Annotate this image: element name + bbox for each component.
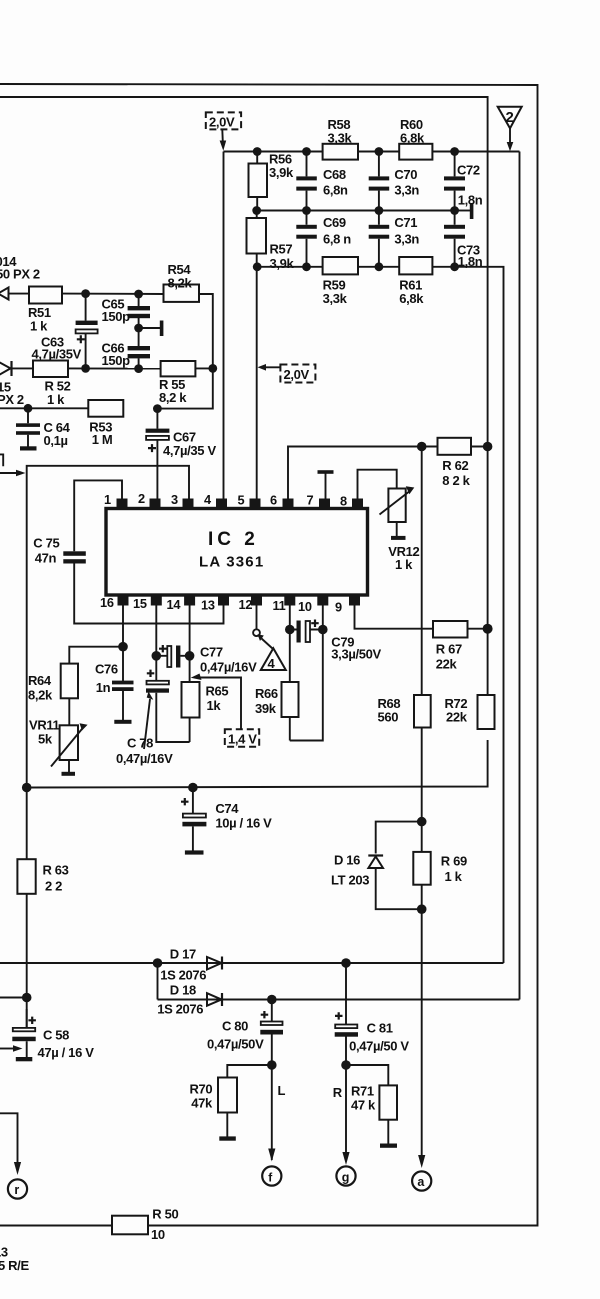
measuring point triangle 4 <box>258 634 286 671</box>
terminal bar mid <box>160 321 164 337</box>
stub wire into left column <box>0 997 27 999</box>
svg-text:C74: C74 <box>215 801 239 816</box>
svg-text:3,9k: 3,9k <box>270 256 295 271</box>
node row3 C69 <box>302 262 311 271</box>
node R67 bus <box>483 624 493 634</box>
wire R62 right to bus <box>471 446 488 448</box>
svg-text:C 58: C 58 <box>43 1028 69 1043</box>
node row1 C72 <box>450 147 459 156</box>
variable resistor VR12 <box>380 486 420 572</box>
svg-text:0,47µ/50 V: 0,47µ/50 V <box>349 1039 409 1054</box>
svg-text:C76: C76 <box>95 662 118 677</box>
wire pin14 down to R65 <box>189 606 191 683</box>
capacitor C69 <box>296 211 351 267</box>
capacitor C67 electrolytic <box>146 409 217 499</box>
svg-text:R71: R71 <box>351 1084 374 1099</box>
svg-text:6,8k: 6,8k <box>399 291 424 306</box>
capacitor C73 <box>444 211 483 270</box>
svg-text:1 k: 1 k <box>47 392 65 407</box>
wire C75 to pin13 <box>74 564 223 624</box>
svg-text:11: 11 <box>273 598 286 613</box>
resistor R61 <box>399 257 432 306</box>
svg-text:LT 203: LT 203 <box>331 873 369 888</box>
svg-text:C 75: C 75 <box>33 536 59 551</box>
resistor R57 <box>247 211 295 272</box>
node row2 R57 <box>252 206 261 215</box>
wire pin3 to left vertical <box>27 466 189 788</box>
resistor R50 <box>112 1207 178 1243</box>
arrow into pin3 net <box>0 470 26 477</box>
wire R64 to VR11 <box>68 698 70 725</box>
svg-text:C 81: C 81 <box>367 1021 393 1036</box>
wire pin4 column from row1 <box>223 152 225 500</box>
svg-text:C71: C71 <box>394 215 417 230</box>
svg-text:1S 2076: 1S 2076 <box>157 1002 203 1017</box>
terminal bar row2 <box>470 203 474 219</box>
node C65-C66 junction <box>134 324 143 333</box>
svg-text:15: 15 <box>133 596 147 611</box>
pin 7 <box>307 493 331 510</box>
wire junction down to R53 row <box>157 368 212 408</box>
node pin14 C77 <box>185 651 195 661</box>
capacitor C75 <box>33 536 86 566</box>
svg-text:0,47µ/16V: 0,47µ/16V <box>200 660 257 675</box>
svg-text:9: 9 <box>335 600 342 615</box>
svg-text:8: 8 <box>340 494 347 509</box>
pin 13 <box>201 595 229 613</box>
wire pin10 down and to R66 bottom <box>290 606 323 741</box>
svg-text:2 2: 2 2 <box>45 879 62 894</box>
svg-text:150p: 150p <box>102 309 131 324</box>
svg-text:LA 3361: LA 3361 <box>199 554 264 571</box>
ground stub above pin7 <box>318 470 334 498</box>
svg-text:0,1µ: 0,1µ <box>44 433 68 448</box>
svg-text:R 69: R 69 <box>441 854 467 869</box>
svg-text:VR11: VR11 <box>29 718 60 733</box>
terminal g <box>336 1152 355 1186</box>
node row1 C68 <box>302 147 311 156</box>
svg-text:10: 10 <box>298 599 312 614</box>
node R62 right on bus <box>483 442 493 452</box>
svg-text:47 k: 47 k <box>351 1098 376 1113</box>
svg-text:3,9k: 3,9k <box>269 165 294 180</box>
svg-text:C 78: C 78 <box>127 736 153 751</box>
voltage label 1,4V with arrow to R65 top <box>191 674 260 747</box>
test point circle pin12 <box>253 629 260 636</box>
svg-text:C77: C77 <box>200 645 223 660</box>
wire net-488 top line and right vertical bus <box>0 97 488 695</box>
resistor R63 <box>17 788 68 1029</box>
wire D15 to R52 <box>12 367 34 369</box>
diode D17 <box>160 947 222 983</box>
svg-text:22k: 22k <box>436 657 458 672</box>
svg-text:1 k: 1 k <box>445 869 463 884</box>
svg-text:50 PX 2: 50 PX 2 <box>0 267 40 282</box>
svg-text:6: 6 <box>270 493 277 508</box>
diode D14 <box>0 288 9 300</box>
svg-text:8,2 k: 8,2 k <box>159 390 187 405</box>
wire pin8 to VR12 <box>358 470 397 499</box>
svg-text:1: 1 <box>104 492 111 507</box>
wire pin1 to C75 <box>74 480 122 551</box>
svg-text:10µ / 16 V: 10µ / 16 V <box>215 816 272 831</box>
wire R53 row left <box>0 407 88 409</box>
svg-text:10: 10 <box>151 1227 165 1242</box>
svg-text:PX 2: PX 2 <box>0 392 24 407</box>
wire drop D17 row to D18 row <box>157 963 159 1000</box>
wire R67 right to bus <box>468 628 488 630</box>
svg-text:8 2 k: 8 2 k <box>442 473 470 488</box>
svg-text:4: 4 <box>268 656 276 671</box>
node C80 R70 <box>267 1060 277 1070</box>
svg-text:22k: 22k <box>446 710 468 725</box>
wire outer border loop top/right/bottom <box>0 84 538 1226</box>
resistor R52 <box>33 361 71 408</box>
wire pin11 down through R66 <box>289 606 291 683</box>
pin 5 <box>238 493 261 510</box>
svg-text:2: 2 <box>506 109 514 126</box>
svg-text:13: 13 <box>201 598 215 613</box>
svg-text:R 63: R 63 <box>43 863 69 878</box>
wire bus from filter row3 down to D17 row <box>455 267 504 963</box>
pin 15 <box>133 595 162 612</box>
capacitor C78 electrolytic <box>116 670 190 766</box>
wire R55 right to junction <box>195 367 212 369</box>
svg-text:L: L <box>278 1083 286 1098</box>
svg-text:6,8n: 6,8n <box>323 183 348 198</box>
svg-text:1 k: 1 k <box>395 557 413 572</box>
svg-text:47µ / 16 V: 47µ / 16 V <box>38 1045 95 1060</box>
svg-text:1,4 V: 1,4 V <box>228 732 257 747</box>
wire R54 right to vertical junction <box>199 294 213 368</box>
resistor R62 <box>438 438 472 488</box>
node D17 row drop <box>153 958 163 968</box>
svg-text:0,47µ/16V: 0,47µ/16V <box>116 751 173 766</box>
svg-text:g: g <box>342 1171 350 1185</box>
svg-text:r: r <box>14 1183 19 1197</box>
node row1 R56 <box>253 147 262 156</box>
resistor R55 <box>159 361 195 405</box>
resistor R58 <box>323 117 358 160</box>
capacitor C66 <box>102 328 151 369</box>
pin 16 <box>100 595 129 611</box>
terminal a <box>412 1155 431 1191</box>
capacitor C77 electrolytic <box>156 645 257 675</box>
stub to terminal bar mid <box>139 327 160 329</box>
arrow into C58 wire <box>0 1045 23 1052</box>
node row2 C73 <box>450 206 459 215</box>
resistor R65 <box>182 682 229 742</box>
svg-text:5 R/E: 5 R/E <box>0 1258 29 1273</box>
IC op-amp IC2 body <box>106 509 368 596</box>
svg-text:C72: C72 <box>457 163 480 178</box>
capacitor C79 electrolytic <box>290 620 382 662</box>
svg-text:IC 2: IC 2 <box>208 529 259 550</box>
svg-text:R 62: R 62 <box>442 458 468 473</box>
capacitor C65 <box>102 294 151 328</box>
node C67 top <box>153 404 162 413</box>
svg-text:12: 12 <box>239 597 253 612</box>
resistor R71 <box>346 1065 397 1148</box>
svg-text:47n: 47n <box>35 551 57 566</box>
wire R68 down across common row <box>421 728 423 822</box>
node pin11 C79 <box>285 625 295 635</box>
node C63 bottom <box>81 364 90 373</box>
svg-text:R57: R57 <box>270 242 293 257</box>
svg-text:R: R <box>333 1085 343 1100</box>
pin 14 <box>167 595 196 613</box>
svg-text:D 17: D 17 <box>170 947 196 962</box>
svg-text:4,7µ/35V: 4,7µ/35V <box>32 347 82 362</box>
wire pin9 to R67 <box>355 606 434 629</box>
svg-text:R70: R70 <box>190 1082 213 1097</box>
node D18 row C80 <box>267 995 277 1005</box>
node row3 R57 bottom <box>253 262 262 271</box>
svg-text:D 18: D 18 <box>170 983 196 998</box>
antenna input 2 <box>498 107 522 152</box>
svg-text:39k: 39k <box>255 701 277 716</box>
capacitor C58 electrolytic <box>12 1009 94 1061</box>
wire pin15 down <box>155 606 157 681</box>
node C65 top <box>134 290 143 299</box>
wire pin12 to test point <box>256 606 258 630</box>
node pin16 <box>118 642 128 652</box>
svg-text:8,2k: 8,2k <box>168 276 193 291</box>
capacitor C63 electrolytic <box>32 294 98 369</box>
svg-text:1 M: 1 M <box>92 432 113 447</box>
diode D15 <box>0 361 12 376</box>
diode D18 <box>157 983 222 1017</box>
resistor R60 <box>399 117 432 160</box>
node D17 row C81 <box>341 958 351 968</box>
node C81 R71 <box>341 1060 351 1070</box>
wire R52 row to R55 <box>68 367 161 369</box>
capacitor C71 <box>369 211 420 267</box>
wire D14 to R51 <box>9 293 30 295</box>
wire pin16 down and left to R64 <box>69 606 123 683</box>
capacitor C81 electrolytic <box>335 963 410 1160</box>
resistor R59 <box>323 257 358 306</box>
svg-text:R66: R66 <box>255 686 278 701</box>
voltage label 2,0V top <box>206 112 241 150</box>
svg-text:5: 5 <box>238 493 245 508</box>
wire filter row3 <box>257 266 454 268</box>
node C66 bottom <box>134 364 143 373</box>
svg-text:1 k: 1 k <box>30 319 48 334</box>
svg-text:14: 14 <box>167 597 182 612</box>
node common row C74 <box>188 783 198 793</box>
node row1 C70 <box>375 147 384 156</box>
pin 9 <box>335 595 360 615</box>
resistor R67 <box>433 621 468 672</box>
svg-text:R64: R64 <box>28 673 52 688</box>
svg-text:6,8k: 6,8k <box>400 131 425 146</box>
pin 8 <box>340 494 363 510</box>
resistor R54 <box>164 262 200 302</box>
capacitor C80 electrolytic <box>207 1000 283 1161</box>
svg-text:4: 4 <box>204 492 212 507</box>
wire pin5 column from row3 <box>256 267 258 499</box>
svg-text:3,3k: 3,3k <box>328 131 353 146</box>
pin 1 <box>104 492 128 509</box>
svg-text:1n: 1n <box>96 680 111 695</box>
svg-text:3,3n: 3,3n <box>394 232 419 247</box>
node row3 C71 <box>375 262 384 271</box>
capacitor C76 <box>95 662 134 724</box>
capacitor C64 <box>16 408 71 450</box>
pin 4 <box>204 492 227 509</box>
node R54-R55 junction <box>208 364 217 373</box>
svg-text:C70: C70 <box>394 167 417 182</box>
node D16 bottom <box>417 904 427 914</box>
cropped connector box left edge <box>0 454 3 466</box>
wire net-488 lower segment to common row <box>26 740 487 788</box>
pin 11 <box>273 595 296 614</box>
svg-text:R65: R65 <box>206 684 229 699</box>
node D16 top <box>417 817 427 827</box>
svg-text:1,8n: 1,8n <box>458 193 483 208</box>
svg-text:5k: 5k <box>38 732 53 747</box>
svg-text:3: 3 <box>171 492 178 507</box>
node row3 C73 <box>450 262 459 271</box>
node pin15 C77 <box>152 651 162 661</box>
svg-text:1S 2076: 1S 2076 <box>160 968 206 983</box>
svg-text:6,8 n: 6,8 n <box>323 232 351 247</box>
node C64 top <box>24 404 33 413</box>
voltage label 2,0V mid <box>258 364 316 383</box>
resistor R70 <box>190 1065 272 1141</box>
svg-text:2,0V: 2,0V <box>209 115 235 130</box>
svg-text:1,8n: 1,8n <box>458 254 483 269</box>
capacitor C68 <box>296 152 348 211</box>
wire pin6 up to R62 row <box>288 447 438 500</box>
svg-text:a: a <box>417 1175 425 1189</box>
svg-text:1k: 1k <box>207 698 222 713</box>
wire row2 stub to terminal bar <box>455 210 471 212</box>
svg-text:3,3n: 3,3n <box>394 183 419 198</box>
resistor R64 <box>28 664 78 703</box>
svg-text:150p: 150p <box>102 353 131 368</box>
svg-text:16: 16 <box>100 595 114 610</box>
svg-text:C 80: C 80 <box>222 1019 248 1034</box>
resistor R56 <box>249 152 295 211</box>
svg-text:R 67: R 67 <box>436 642 462 657</box>
resistor R72 <box>445 695 495 729</box>
variable resistor VR11 <box>29 718 88 776</box>
resistor R69 <box>413 822 467 1160</box>
terminal r <box>8 1162 27 1199</box>
wire filter row1 <box>224 151 520 153</box>
terminal f <box>262 1149 281 1186</box>
wire D17 row <box>0 962 504 964</box>
resistor R53 <box>88 400 123 447</box>
svg-text:4,7µ/35 V: 4,7µ/35 V <box>163 443 216 458</box>
svg-text:47k: 47k <box>191 1096 213 1111</box>
svg-text:D 16: D 16 <box>334 853 360 868</box>
pin 3 <box>171 492 194 509</box>
pin 2 <box>138 491 161 509</box>
svg-text:3,3µ/50V: 3,3µ/50V <box>331 647 381 662</box>
svg-text:7: 7 <box>307 493 314 508</box>
node pin10 C79 <box>318 625 328 635</box>
node left column stub <box>22 993 32 1003</box>
node row2 C69 <box>302 206 311 215</box>
wire to terminal r <box>0 1113 18 1162</box>
resistor R66 <box>255 682 299 741</box>
pin 6 <box>270 493 294 510</box>
capacitor C72 <box>444 152 483 211</box>
capacitor C70 <box>369 152 420 211</box>
diode D16 <box>331 822 422 910</box>
svg-text:2: 2 <box>138 491 145 506</box>
svg-text:C68: C68 <box>323 167 346 182</box>
svg-text:R 50: R 50 <box>152 1207 178 1222</box>
wire filter row2 <box>257 210 455 212</box>
node row2 C71 <box>375 206 384 215</box>
wire R51 row to R54 <box>62 293 164 295</box>
svg-text:560: 560 <box>378 710 399 725</box>
wire D18 row <box>158 999 520 1001</box>
svg-text:8,2k: 8,2k <box>28 688 53 703</box>
svg-text:C69: C69 <box>323 215 346 230</box>
pin 12 <box>239 595 263 613</box>
svg-text:0,47µ/50V: 0,47µ/50V <box>207 1037 264 1052</box>
pin 10 <box>298 595 328 615</box>
svg-text:3,3k: 3,3k <box>323 291 348 306</box>
svg-text:2,0V: 2,0V <box>284 367 310 382</box>
node C63 top <box>81 289 90 298</box>
capacitor C74 electrolytic <box>181 788 272 855</box>
resistor R51 <box>28 287 62 334</box>
resistor R68 <box>378 447 431 728</box>
node common row left <box>22 783 32 793</box>
wire bus from filter row1 down to D18 row <box>519 152 521 1000</box>
node R62 left / a-column <box>417 442 427 452</box>
